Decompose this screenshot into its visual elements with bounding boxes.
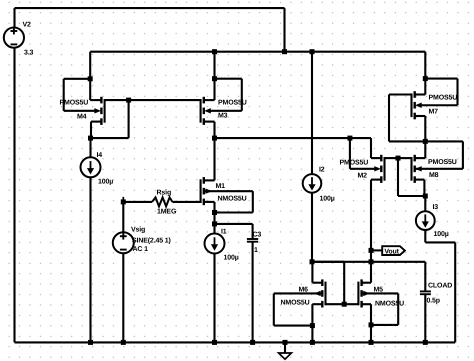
svg-text:0.5p: 0.5p xyxy=(427,298,440,305)
svg-text:M8: M8 xyxy=(429,172,439,179)
svg-text:Vout: Vout xyxy=(384,249,399,256)
svg-text:CLOAD: CLOAD xyxy=(428,283,452,290)
svg-text:I4: I4 xyxy=(97,152,103,159)
svg-text:NMOS5U: NMOS5U xyxy=(281,300,310,307)
svg-text:PMOS5U: PMOS5U xyxy=(340,160,369,167)
svg-text:1MEG: 1MEG xyxy=(157,209,177,216)
svg-text:PMOS5U: PMOS5U xyxy=(428,159,457,166)
svg-text:AC 1: AC 1 xyxy=(133,246,149,253)
svg-text:100µ: 100µ xyxy=(224,255,239,262)
svg-text:SINE(2.45 1): SINE(2.45 1) xyxy=(132,236,171,244)
svg-text:PMOS5U: PMOS5U xyxy=(429,95,458,102)
svg-text:V2: V2 xyxy=(23,22,32,29)
svg-text:I2: I2 xyxy=(319,167,325,174)
svg-text:C3: C3 xyxy=(253,232,262,239)
svg-text:I3: I3 xyxy=(433,204,439,211)
svg-text:M6: M6 xyxy=(299,287,309,294)
svg-text:M1: M1 xyxy=(216,183,226,190)
svg-text:Rsig: Rsig xyxy=(157,189,172,197)
svg-text:PMOS5U: PMOS5U xyxy=(218,100,247,107)
svg-text:Vsig: Vsig xyxy=(131,225,145,233)
svg-text:NMOS5U: NMOS5U xyxy=(218,196,247,203)
svg-text:100µ: 100µ xyxy=(434,231,449,238)
svg-text:M3: M3 xyxy=(218,113,228,120)
svg-text:I1: I1 xyxy=(221,228,227,235)
svg-text:100µ: 100µ xyxy=(98,179,113,186)
svg-text:M4: M4 xyxy=(77,114,87,121)
svg-text:3.3: 3.3 xyxy=(24,49,34,56)
svg-text:NMOS5U: NMOS5U xyxy=(375,301,404,308)
svg-text:PMOS5U: PMOS5U xyxy=(60,100,89,107)
svg-text:M7: M7 xyxy=(429,109,439,116)
svg-text:M5: M5 xyxy=(374,287,384,294)
svg-text:1: 1 xyxy=(254,247,258,254)
svg-text:M2: M2 xyxy=(358,173,368,180)
svg-text:100µ: 100µ xyxy=(320,195,335,202)
